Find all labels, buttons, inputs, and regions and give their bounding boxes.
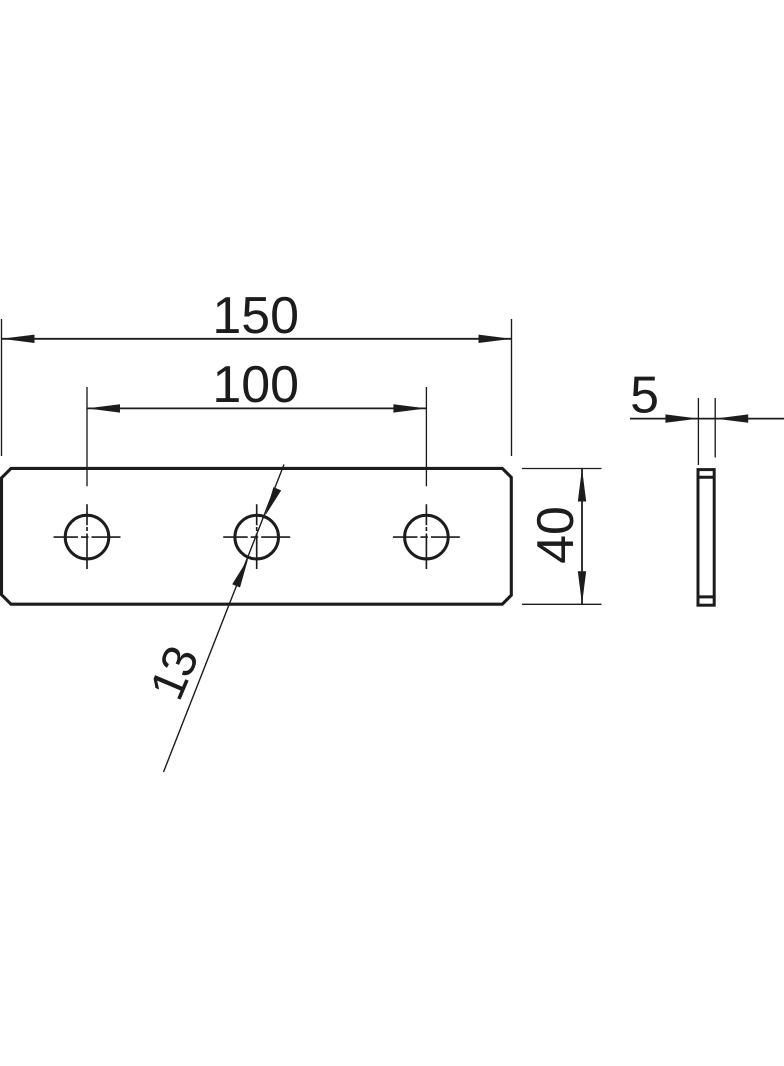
svg-text:150: 150 xyxy=(212,287,299,345)
extension line bottom xyxy=(522,603,602,605)
dimension line xyxy=(581,469,583,605)
arrow 40 top xyxy=(578,469,586,502)
leader arrow lower xyxy=(232,559,248,588)
arrow 100 right xyxy=(393,404,426,412)
dimension line xyxy=(87,407,426,409)
dimension 5 xyxy=(630,398,784,465)
extension line right xyxy=(714,398,716,458)
svg-text:100: 100 xyxy=(212,356,299,414)
hole 1 (left) xyxy=(65,515,109,559)
side view chamfer line top xyxy=(698,476,714,479)
plate outline (front view) xyxy=(2,468,512,604)
extension line right xyxy=(511,319,513,456)
centerline hole 2 xyxy=(223,504,290,569)
extension line left xyxy=(1,319,3,456)
arrow 5 left xyxy=(665,414,698,422)
svg-text:5: 5 xyxy=(630,367,659,425)
dimension line xyxy=(2,338,512,340)
side view (thickness) xyxy=(698,470,714,606)
side view outline xyxy=(698,470,714,606)
dimension line xyxy=(630,418,784,420)
extension line top xyxy=(522,468,602,470)
dimension 150 xyxy=(2,319,512,456)
side view chamfer line bottom xyxy=(698,595,714,598)
leader arrow upper xyxy=(265,487,281,516)
extension line left (hole 1) xyxy=(86,387,88,486)
arrow 150 right xyxy=(479,335,512,343)
dimension 40 xyxy=(522,469,602,605)
extension line left xyxy=(697,398,699,465)
arrow 150 left xyxy=(2,335,35,343)
leader diameter 13 xyxy=(164,465,285,773)
centerline hole 1 xyxy=(54,504,121,569)
arrow 40 bottom xyxy=(578,571,586,604)
leader line xyxy=(164,465,285,773)
arrow 100 left xyxy=(87,404,120,412)
centerline hole 3 xyxy=(393,504,460,569)
dimension 100 xyxy=(87,387,426,486)
svg-text:40: 40 xyxy=(527,506,585,564)
hole 2 (middle) xyxy=(235,515,279,559)
hole 3 (right) xyxy=(405,515,449,559)
arrow 5 right xyxy=(715,414,748,422)
extension line right (hole 3) xyxy=(425,387,427,486)
